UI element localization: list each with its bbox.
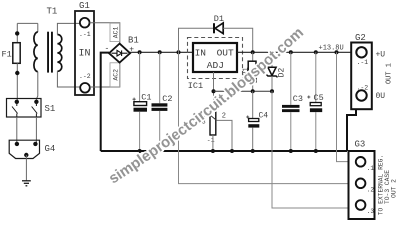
svg-text:+13.8U: +13.8U (319, 45, 344, 53)
wire: R1 bottom lead to ADJ node (252, 82, 254, 91)
svg-text:F1: F1 (2, 50, 12, 60)
wire: ADJ branch to G3-3 (272, 91, 356, 208)
svg-text:C5: C5 (314, 93, 324, 103)
svg-text:AC2: AC2 (112, 69, 119, 81)
label G3 (355, 140, 366, 150)
svg-text:C4: C4 (259, 112, 269, 121)
label G2 (355, 33, 366, 43)
svg-text:.-1: .-1 (79, 31, 91, 38)
svg-text:0U: 0U (376, 92, 386, 101)
label bridge plus (129, 46, 134, 55)
wire: D2 bottom lead to ADJ node (271, 76, 273, 91)
capacitor C1 (133, 98, 148, 112)
label D2 (277, 68, 286, 78)
node: junction dot below fuse (15, 71, 19, 75)
svg-text:+: + (129, 46, 134, 55)
node: 0V rail dot pot pin1 (211, 149, 215, 153)
label G4 (45, 144, 56, 154)
svg-text:OUT: OUT (217, 47, 234, 58)
wire: +13.8V branch to G3-1 (337, 52, 357, 161)
node: 0V rail dot C2 (158, 149, 162, 153)
wire: plug to earth ground (25, 155, 27, 181)
svg-text:2: 2 (222, 113, 226, 121)
pin label G3-2 (367, 187, 375, 194)
wire: C3 bottom lead (290, 112, 292, 151)
pin label G1-1 (79, 31, 91, 38)
connector G3 (349, 151, 375, 219)
label C5 (314, 93, 324, 103)
pin label G2-1 (357, 59, 369, 66)
label OUT 2 (rotated) (391, 179, 398, 198)
bridge rectifier B1 (109, 44, 130, 63)
watermark simpleprojectcircuit.blogspot.com (106, 24, 307, 187)
label TO EXTERNAL REG. (rotated) (378, 155, 385, 215)
node: rail dot D1 / G3-2 branch (177, 50, 181, 54)
wire: IC1 ADJ pin down (213, 72, 215, 106)
label G1 IN (79, 49, 91, 60)
node: 0V rail dot C3 (289, 149, 293, 153)
svg-text:C2: C2 (162, 94, 172, 104)
pin label P1-2 (222, 113, 226, 121)
svg-text:.1: .1 (367, 165, 375, 172)
wire: C5 bottom lead (315, 112, 317, 151)
svg-text:AC1: AC1 (112, 26, 119, 38)
pin label G3-1 (367, 165, 375, 172)
node: 0V rail dot C5 (314, 149, 318, 153)
label D1 (214, 14, 224, 24)
pin label P1-1 (207, 137, 215, 144)
wire: primary top lead (37, 23, 39, 32)
wire: pot wiper to 0V rail (217, 120, 232, 151)
wire: C1 bottom lead (139, 112, 141, 151)
svg-text:IC1: IC1 (188, 81, 203, 91)
svg-text:D1: D1 (214, 14, 224, 24)
op-amp/regulator IC1 body (193, 43, 237, 72)
node: rail dot G3-1 branch (335, 50, 339, 54)
node: 0V rail dot pot wiper (230, 149, 234, 153)
diode D1 (214, 23, 223, 34)
svg-text:D2: D2 (277, 68, 286, 78)
wire: G1-1 to bridge AC1 (90, 23, 120, 44)
wire: 0V rail to G2-2 (thick) (347, 101, 356, 151)
capacitor C2 (152, 103, 168, 111)
label G1 (79, 1, 90, 11)
wire: C4 bottom lead (252, 128, 254, 151)
zener diode D2 (267, 67, 278, 77)
pin label G2-2 (357, 85, 369, 92)
wire: bridge minus output (thick) to 0V rail (101, 53, 109, 151)
svg-text:ADJ: ADJ (207, 60, 224, 71)
svg-text:T1: T1 (47, 7, 58, 17)
node: rail dot C1 (138, 50, 142, 54)
transformer T1 secondary winding (57, 35, 61, 72)
wire: switch to plug G4 right (35, 117, 37, 144)
svg-text:IN: IN (79, 49, 91, 60)
svg-text:.-2: .-2 (79, 73, 91, 80)
label C2 (162, 94, 172, 104)
node: rail dot D2 (270, 50, 274, 54)
svg-text:.-2: .-2 (357, 85, 369, 92)
svg-text:B1: B1 (128, 36, 139, 46)
label S1 (45, 104, 56, 114)
wire: 0V rail (thick) (101, 150, 347, 152)
svg-text:S1: S1 (45, 104, 56, 114)
switch S1 (7, 99, 42, 118)
label +V (376, 51, 386, 60)
label TO-3 CASE (rotated) (384, 170, 391, 204)
transformer T1 label (47, 7, 58, 17)
label 0V (376, 92, 386, 101)
node: 0V rail dot C1 (138, 149, 142, 153)
label OUT 1 (rotated) (386, 63, 394, 84)
connector G2 (351, 43, 372, 110)
transformer T1 core (47, 32, 53, 73)
wire: secondary top lead to G1 pin 1 (57, 23, 80, 34)
wire: OUT rail from IC1 to G2-1 (237, 51, 356, 53)
capacitor C3 (282, 105, 300, 112)
pin label G1-2 (79, 73, 91, 80)
svg-text:C3: C3 (293, 94, 303, 104)
label IC1 ADJ pin (207, 60, 224, 71)
wire: fuse to switch S1 (16, 63, 18, 101)
svg-text:.2: .2 (367, 187, 375, 194)
wire: top horizontal mains to transformer (17, 22, 38, 24)
label C3 (293, 94, 303, 104)
svg-text:OUT 1: OUT 1 (386, 63, 394, 84)
connector G4 (mains plug) (9, 140, 39, 158)
label IC1 OUT pin (217, 47, 234, 58)
label C1 (141, 93, 151, 103)
wire: bridge + to IC1 IN rail (130, 51, 193, 53)
wire: D1 anode to OUT rail (223, 28, 253, 52)
wire: C5 top lead (315, 52, 317, 102)
wire: fuse top lead (16, 23, 18, 42)
svg-text:G4: G4 (45, 144, 56, 154)
pin label box AC1 (110, 23, 120, 41)
capacitor C5 (307, 96, 322, 113)
potentiometer P1 (204, 106, 216, 135)
wire: switch to plug G4 left (16, 117, 18, 144)
wire: unregulated branch to G3-2 (179, 52, 357, 183)
label F1 (2, 50, 12, 60)
connector G1 (75, 11, 94, 95)
wire: C4 top lead (252, 91, 254, 118)
transformer T1 primary winding (34, 32, 38, 72)
wire: C2 bottom lead (159, 111, 161, 151)
wire: C1 top lead (139, 52, 141, 101)
IC1 dashed outline (188, 38, 243, 79)
earth ground (22, 181, 31, 186)
wire: D2 top lead (271, 52, 273, 67)
node: rail dot R1/D1 (251, 50, 255, 54)
label bridge minus (105, 45, 110, 54)
svg-text:G2: G2 (355, 33, 366, 43)
label C4 (259, 112, 269, 121)
wire: D1 branch up from IN rail (179, 28, 214, 52)
svg-text:C1: C1 (141, 93, 151, 103)
pin label P1-3 (202, 119, 206, 126)
capacitor C4 (246, 116, 259, 128)
wire: C3 top lead (290, 52, 292, 105)
label IC1 (188, 81, 203, 91)
svg-text:+U: +U (376, 51, 386, 60)
node: fuse top junction dot (15, 31, 19, 35)
fuse F1 (13, 43, 20, 64)
node: rail dot C3 (289, 50, 293, 54)
svg-text:-1: -1 (207, 137, 215, 144)
node: ADJ dot at pot top (212, 89, 216, 93)
label P1 (200, 109, 208, 117)
wire: primary bottom lead to switch (36, 72, 37, 102)
pin label G3-3 (367, 208, 375, 215)
node: rail dot C5 (314, 50, 318, 54)
wire: ADJ node horizontal (214, 90, 273, 92)
svg-text:.3: .3 (367, 208, 375, 215)
svg-text:.-1: .-1 (357, 59, 369, 66)
wire: R1 top lead (252, 52, 254, 61)
svg-text:OUT 2: OUT 2 (391, 179, 398, 198)
label B1 (128, 36, 139, 46)
node: rail dot C2 (158, 50, 162, 54)
node: 0V rail dot C4 (251, 149, 255, 153)
svg-text:G3: G3 (355, 140, 366, 150)
wire: pot bottom to 0V rail (212, 135, 214, 151)
wire: secondary bottom lead to G1 pin 2 (57, 71, 80, 87)
node: ADJ dot at D2 (270, 89, 274, 93)
pin label box AC2 (110, 63, 120, 87)
label R1 (242, 67, 250, 75)
label IC1 IN pin (195, 47, 206, 58)
node: ADJ dot at R1 (251, 89, 255, 93)
wire: G1-2 to bridge AC2 (90, 62, 120, 87)
label +13.8V net (319, 45, 344, 53)
svg-text:G1: G1 (79, 1, 90, 11)
wire: C2 top lead (159, 52, 161, 103)
resistor R1 (248, 61, 256, 82)
svg-text:IN: IN (195, 47, 206, 58)
